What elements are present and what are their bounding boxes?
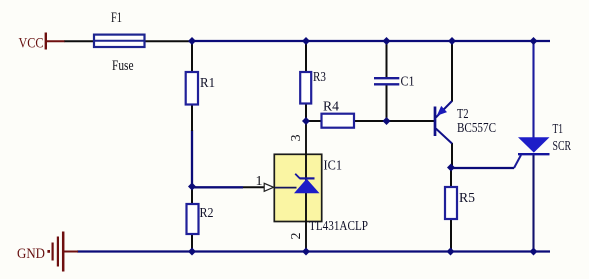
svg-text:GND: GND [17,246,45,262]
svg-text:TL431ACLP: TL431ACLP [309,219,368,234]
svg-text:IC1: IC1 [324,159,343,174]
svg-text:R4: R4 [323,100,339,115]
svg-text:SCR: SCR [553,139,572,154]
svg-text:Fuse: Fuse [112,58,134,74]
svg-text:1: 1 [256,174,263,189]
svg-text:R3: R3 [313,70,326,85]
svg-text:2: 2 [289,233,304,240]
svg-text:VCC: VCC [19,36,44,52]
svg-text:BC557C: BC557C [457,121,496,136]
svg-text:R5: R5 [459,191,475,206]
svg-text:C1: C1 [401,75,415,90]
svg-text:F1: F1 [111,10,122,26]
svg-text:T1: T1 [553,122,564,137]
svg-text:3: 3 [289,135,304,142]
svg-text:T2: T2 [457,107,469,122]
svg-text:R2: R2 [200,206,214,221]
svg-text:R1: R1 [200,76,215,91]
